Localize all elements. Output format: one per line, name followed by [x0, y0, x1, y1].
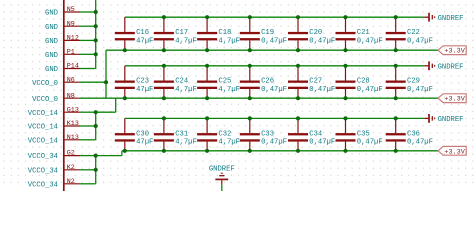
wire from pin P14: [80, 68, 96, 70]
svg-text:GNDREF: GNDREF: [438, 63, 464, 71]
junction: [94, 168, 98, 172]
capacitor C34 0,47µF: [288, 118, 335, 150]
junction: [248, 48, 252, 52]
pin N2 (VCCO_34): [28, 178, 80, 190]
FPGA symbol U1 body edge: [63, 0, 65, 191]
wire from pin G13: [80, 111, 96, 113]
svg-text:C31: C31: [175, 130, 188, 138]
wire from pin P1: [80, 53, 96, 55]
svg-text:GND: GND: [45, 52, 58, 60]
svg-text:+3.3V: +3.3V: [444, 148, 465, 156]
wire VCCO_14 feed to +3.3V rail: [96, 98, 116, 112]
capacitor C17 4,7µF: [154, 17, 197, 50]
svg-text:C16: C16: [136, 29, 149, 37]
junction: [343, 15, 347, 19]
svg-text:VCCO_14: VCCO_14: [28, 110, 58, 118]
svg-text:0,47µF: 0,47µF: [407, 37, 433, 45]
svg-text:C29: C29: [407, 78, 420, 86]
power port GNDREF row 2: [424, 61, 463, 71]
svg-text:C25: C25: [218, 78, 231, 86]
svg-text:0,47µF: 0,47µF: [407, 86, 433, 94]
svg-text:0,47µF: 0,47µF: [309, 37, 335, 45]
junction: [296, 15, 300, 19]
wire from pin K13: [80, 125, 96, 127]
svg-text:C32: C32: [218, 130, 231, 138]
svg-text:0,47µF: 0,47µF: [261, 86, 287, 94]
svg-text:C21: C21: [357, 29, 370, 37]
svg-text:C26: C26: [261, 78, 274, 86]
wire GNDREF rail row 2: [125, 65, 425, 67]
svg-text:C22: C22: [407, 29, 420, 37]
svg-text:C23: C23: [136, 78, 149, 86]
junction: [123, 149, 127, 153]
junction: [94, 52, 98, 56]
svg-text:N12: N12: [67, 35, 79, 43]
svg-text:N9: N9: [67, 20, 75, 28]
junction: [296, 48, 300, 52]
capacitor C19 0,47µF: [240, 17, 287, 50]
svg-text:K2: K2: [67, 164, 75, 172]
svg-text:K13: K13: [67, 120, 79, 128]
wire +3.3V rail row 3: [122, 150, 438, 152]
capacitor C29 0,47µF: [386, 66, 433, 98]
junction: [296, 116, 300, 120]
junction: [248, 15, 252, 19]
junction: [343, 149, 347, 153]
wire GNDREF rail row 1: [125, 16, 425, 18]
wire VCCO_34 vertical bus: [95, 156, 97, 184]
svg-text:VCCO_34: VCCO_34: [28, 153, 58, 161]
capacitor C20 0,47µF: [288, 17, 335, 50]
svg-text:0,47µF: 0,47µF: [261, 37, 287, 45]
svg-text:C20: C20: [309, 29, 322, 37]
capacitor C36 0,47µF: [386, 118, 433, 150]
pin N6 (VCCO_0): [32, 76, 80, 88]
power port GNDREF row 1: [424, 13, 463, 23]
svg-text:GND: GND: [45, 38, 58, 46]
junction: [343, 96, 347, 100]
global label +3.3V row 1: [438, 46, 466, 56]
svg-text:47µF: 47µF: [136, 139, 153, 147]
capacitor C24 4,7µF: [154, 66, 197, 98]
svg-text:0,47µF: 0,47µF: [357, 139, 383, 147]
svg-text:VCCO_0: VCCO_0: [32, 80, 58, 88]
wire VCCO_34 feed to +3.3V rail: [96, 151, 122, 156]
junction: [94, 38, 98, 42]
wire +3.3V vertical bus (VCCO_0): [105, 50, 107, 98]
capacitor C22 0,47µF: [386, 17, 433, 50]
pin N5 (GND): [45, 6, 80, 18]
svg-text:N6: N6: [67, 76, 75, 84]
svg-text:4,7µF: 4,7µF: [175, 139, 197, 147]
capacitor C35 0,47µF: [336, 118, 383, 150]
svg-text:C33: C33: [261, 130, 274, 138]
wire from pin N12: [80, 39, 96, 41]
junction: [394, 48, 398, 52]
junction: [296, 149, 300, 153]
capacitor C32 4,7µF: [197, 118, 240, 150]
pin K13 (VCCO_14): [28, 120, 80, 132]
svg-text:GND: GND: [45, 10, 58, 18]
svg-text:G13: G13: [67, 106, 79, 114]
svg-text:P14: P14: [67, 63, 79, 71]
svg-text:N8: N8: [67, 92, 75, 100]
svg-text:VCCO_14: VCCO_14: [28, 137, 58, 145]
global label +3.3V row 2: [438, 94, 466, 104]
wire from pin N9: [80, 25, 96, 27]
junction: [394, 64, 398, 68]
svg-text:4,7µF: 4,7µF: [175, 86, 197, 94]
capacitor C16 47µF: [115, 17, 154, 50]
wire from pin N13: [80, 139, 96, 141]
pin N8 (VCCO_0): [32, 92, 80, 104]
junction: [394, 96, 398, 100]
pin N12 (GND): [45, 35, 80, 47]
svg-text:C30: C30: [136, 130, 149, 138]
power port GNDREF (bottom): [209, 166, 235, 185]
svg-text:4,7µF: 4,7µF: [218, 86, 240, 94]
junction: [248, 96, 252, 100]
svg-text:C24: C24: [175, 78, 188, 86]
junction: [94, 110, 98, 114]
junction: [94, 24, 98, 28]
junction: [248, 116, 252, 120]
wire +3.3V rail row 1: [106, 49, 438, 51]
junction: [205, 149, 209, 153]
svg-text:47µF: 47µF: [136, 37, 153, 45]
svg-text:0,47µF: 0,47µF: [357, 37, 383, 45]
capacitor C28 0,47µF: [336, 66, 383, 98]
pin P14 (GND): [45, 63, 80, 75]
svg-text:4,7µF: 4,7µF: [218, 37, 240, 45]
junction: [205, 96, 209, 100]
capacitor C25 4,7µF: [197, 66, 240, 98]
wire from pin N5: [80, 11, 96, 13]
capacitor C27 0,47µF: [288, 66, 335, 98]
capacitor C23 47µF: [115, 66, 154, 98]
junction: [343, 116, 347, 120]
capacitor C31 4,7µF: [154, 118, 197, 150]
svg-text:GNDREF: GNDREF: [209, 166, 235, 174]
svg-text:N5: N5: [67, 6, 75, 14]
svg-text:GND: GND: [45, 66, 58, 74]
junction: [296, 96, 300, 100]
junction: [205, 64, 209, 68]
svg-text:G2: G2: [67, 150, 75, 158]
wire GND vertical bus: [95, 0, 97, 69]
svg-text:VCCO_34: VCCO_34: [28, 181, 58, 189]
junction: [205, 48, 209, 52]
svg-text:0,47µF: 0,47µF: [309, 139, 335, 147]
svg-text:C28: C28: [357, 78, 370, 86]
svg-text:0,47µF: 0,47µF: [261, 139, 287, 147]
junction: [123, 96, 127, 100]
junction: [205, 15, 209, 19]
junction: [343, 48, 347, 52]
junction: [248, 64, 252, 68]
wire from pin N2: [80, 183, 96, 185]
svg-text:VCCO_14: VCCO_14: [28, 124, 58, 132]
pin K2 (VCCO_34): [28, 164, 80, 176]
svg-text:N2: N2: [67, 178, 75, 186]
svg-text:N13: N13: [67, 134, 79, 142]
junction: [162, 116, 166, 120]
svg-text:P1: P1: [67, 48, 75, 56]
svg-text:VCCO_0: VCCO_0: [32, 96, 58, 104]
wire GNDREF rail row 3: [125, 117, 425, 119]
svg-text:C19: C19: [261, 29, 274, 37]
junction: [394, 15, 398, 19]
svg-text:C36: C36: [407, 130, 420, 138]
junction: [104, 80, 108, 84]
svg-text:+3.3V: +3.3V: [444, 96, 465, 104]
pin P1 (GND): [45, 48, 80, 60]
junction: [248, 149, 252, 153]
capacitor C21 0,47µF: [336, 17, 383, 50]
junction: [162, 15, 166, 19]
capacitor C26 0,47µF: [240, 66, 287, 98]
junction: [162, 96, 166, 100]
svg-text:VCCO_34: VCCO_34: [28, 167, 58, 175]
svg-text:+3.3V: +3.3V: [444, 48, 465, 56]
pin N13 (VCCO_14): [28, 134, 80, 146]
global label +3.3V row 3: [438, 146, 466, 156]
svg-text:0,47µF: 0,47µF: [407, 139, 433, 147]
svg-text:GNDREF: GNDREF: [438, 116, 464, 124]
svg-text:GND: GND: [45, 24, 58, 32]
junction: [162, 149, 166, 153]
wire from pin N6: [80, 81, 106, 83]
svg-text:C35: C35: [357, 130, 370, 138]
svg-text:C27: C27: [309, 78, 322, 86]
wire from bottom GNDREF port: [221, 185, 223, 191]
wire from pin G2: [80, 155, 96, 157]
wire VCCO_14 vertical bus: [95, 112, 97, 140]
svg-text:C17: C17: [175, 29, 188, 37]
junction: [162, 64, 166, 68]
pin G2 (VCCO_34): [28, 150, 80, 162]
svg-text:GNDREF: GNDREF: [438, 15, 464, 23]
junction: [343, 64, 347, 68]
wire from pin K2: [80, 169, 96, 171]
wire from pin N8: [80, 97, 106, 99]
capacitor C18 4,7µF: [197, 17, 240, 50]
svg-text:4,7µF: 4,7µF: [175, 37, 197, 45]
capacitor C30 47µF: [115, 118, 154, 150]
junction: [296, 64, 300, 68]
junction: [205, 116, 209, 120]
pin G13 (VCCO_14): [28, 106, 80, 118]
junction: [94, 154, 98, 158]
svg-text:C34: C34: [309, 130, 322, 138]
junction: [162, 48, 166, 52]
junction: [123, 48, 127, 52]
power port GNDREF row 3: [424, 114, 463, 124]
junction: [94, 10, 98, 14]
junction: [394, 149, 398, 153]
svg-text:0,47µF: 0,47µF: [357, 86, 383, 94]
svg-text:47µF: 47µF: [136, 86, 153, 94]
svg-text:0,47µF: 0,47µF: [309, 86, 335, 94]
svg-text:4,7µF: 4,7µF: [218, 139, 240, 147]
pin N9 (GND): [45, 20, 80, 32]
svg-text:C18: C18: [218, 29, 231, 37]
capacitor C33 0,47µF: [240, 118, 287, 150]
junction: [394, 116, 398, 120]
wire +3.3V rail row 2: [106, 97, 438, 99]
junction: [94, 124, 98, 128]
